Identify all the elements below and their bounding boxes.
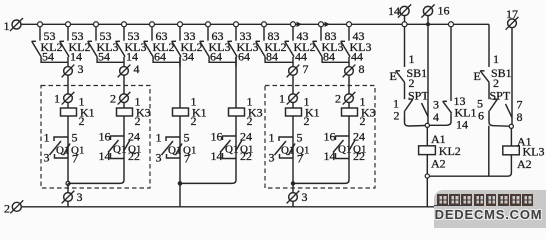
svg-text:7: 7 xyxy=(184,152,190,166)
svg-text:A2: A2 xyxy=(517,157,532,171)
svg-text:16: 16 xyxy=(211,130,223,144)
svg-text:14: 14 xyxy=(324,149,336,163)
svg-text:2: 2 xyxy=(191,114,197,128)
svg-text:22: 22 xyxy=(240,149,252,163)
svg-text:8: 8 xyxy=(359,62,365,76)
svg-text:2: 2 xyxy=(79,114,85,128)
svg-text:54: 54 xyxy=(98,50,110,64)
svg-text:14: 14 xyxy=(99,149,111,163)
svg-text:54: 54 xyxy=(42,50,54,64)
svg-text:5: 5 xyxy=(184,131,190,145)
svg-text:84: 84 xyxy=(323,50,335,64)
svg-text:1: 1 xyxy=(269,131,275,145)
svg-text:84: 84 xyxy=(266,50,278,64)
svg-text:16: 16 xyxy=(324,130,336,144)
svg-text:1: 1 xyxy=(279,92,285,106)
svg-text:3: 3 xyxy=(302,190,308,204)
svg-text:2: 2 xyxy=(304,114,310,128)
svg-text:1: 1 xyxy=(156,131,162,145)
svg-text:16: 16 xyxy=(99,130,111,144)
svg-text:16: 16 xyxy=(438,4,450,18)
svg-text:4: 4 xyxy=(134,62,140,76)
svg-text:5: 5 xyxy=(297,131,303,145)
svg-text:2: 2 xyxy=(4,202,10,216)
svg-text:7: 7 xyxy=(72,152,78,166)
svg-text:2: 2 xyxy=(135,114,141,128)
svg-text:E: E xyxy=(474,69,481,83)
svg-text:3: 3 xyxy=(44,151,50,165)
svg-text:2: 2 xyxy=(247,114,253,128)
svg-text:3: 3 xyxy=(156,151,162,165)
svg-text:2: 2 xyxy=(360,114,366,128)
svg-text:Q1: Q1 xyxy=(281,145,294,157)
svg-text:2: 2 xyxy=(110,92,116,106)
svg-text:1: 1 xyxy=(44,131,50,145)
svg-text:SPT: SPT xyxy=(490,89,511,103)
svg-text:Q1: Q1 xyxy=(56,145,69,157)
svg-text:64: 64 xyxy=(238,50,250,64)
svg-text:2: 2 xyxy=(394,109,400,123)
svg-text:22: 22 xyxy=(353,149,365,163)
svg-text:64: 64 xyxy=(154,50,166,64)
svg-text:8: 8 xyxy=(517,110,523,124)
svg-text:1: 1 xyxy=(409,52,415,66)
svg-text:Q1: Q1 xyxy=(168,145,181,157)
svg-text:2: 2 xyxy=(335,92,341,106)
svg-text:22: 22 xyxy=(128,149,140,163)
svg-text:A2: A2 xyxy=(431,157,446,171)
svg-text:14: 14 xyxy=(211,149,223,163)
svg-text:7: 7 xyxy=(297,152,303,166)
svg-text:14: 14 xyxy=(388,4,400,18)
svg-text:1: 1 xyxy=(54,92,60,106)
svg-text:3: 3 xyxy=(269,151,275,165)
svg-text:34: 34 xyxy=(182,50,194,64)
svg-text:6: 6 xyxy=(478,109,484,123)
svg-text:5: 5 xyxy=(72,131,78,145)
svg-text:3: 3 xyxy=(78,62,84,76)
svg-text:64: 64 xyxy=(210,50,222,64)
svg-text:7: 7 xyxy=(303,62,309,76)
svg-text:14: 14 xyxy=(456,118,468,132)
svg-text:4: 4 xyxy=(433,110,439,124)
svg-text:E: E xyxy=(390,69,397,83)
svg-text:1: 1 xyxy=(493,52,499,66)
svg-text:1: 1 xyxy=(4,19,10,33)
svg-text:3: 3 xyxy=(77,190,83,204)
